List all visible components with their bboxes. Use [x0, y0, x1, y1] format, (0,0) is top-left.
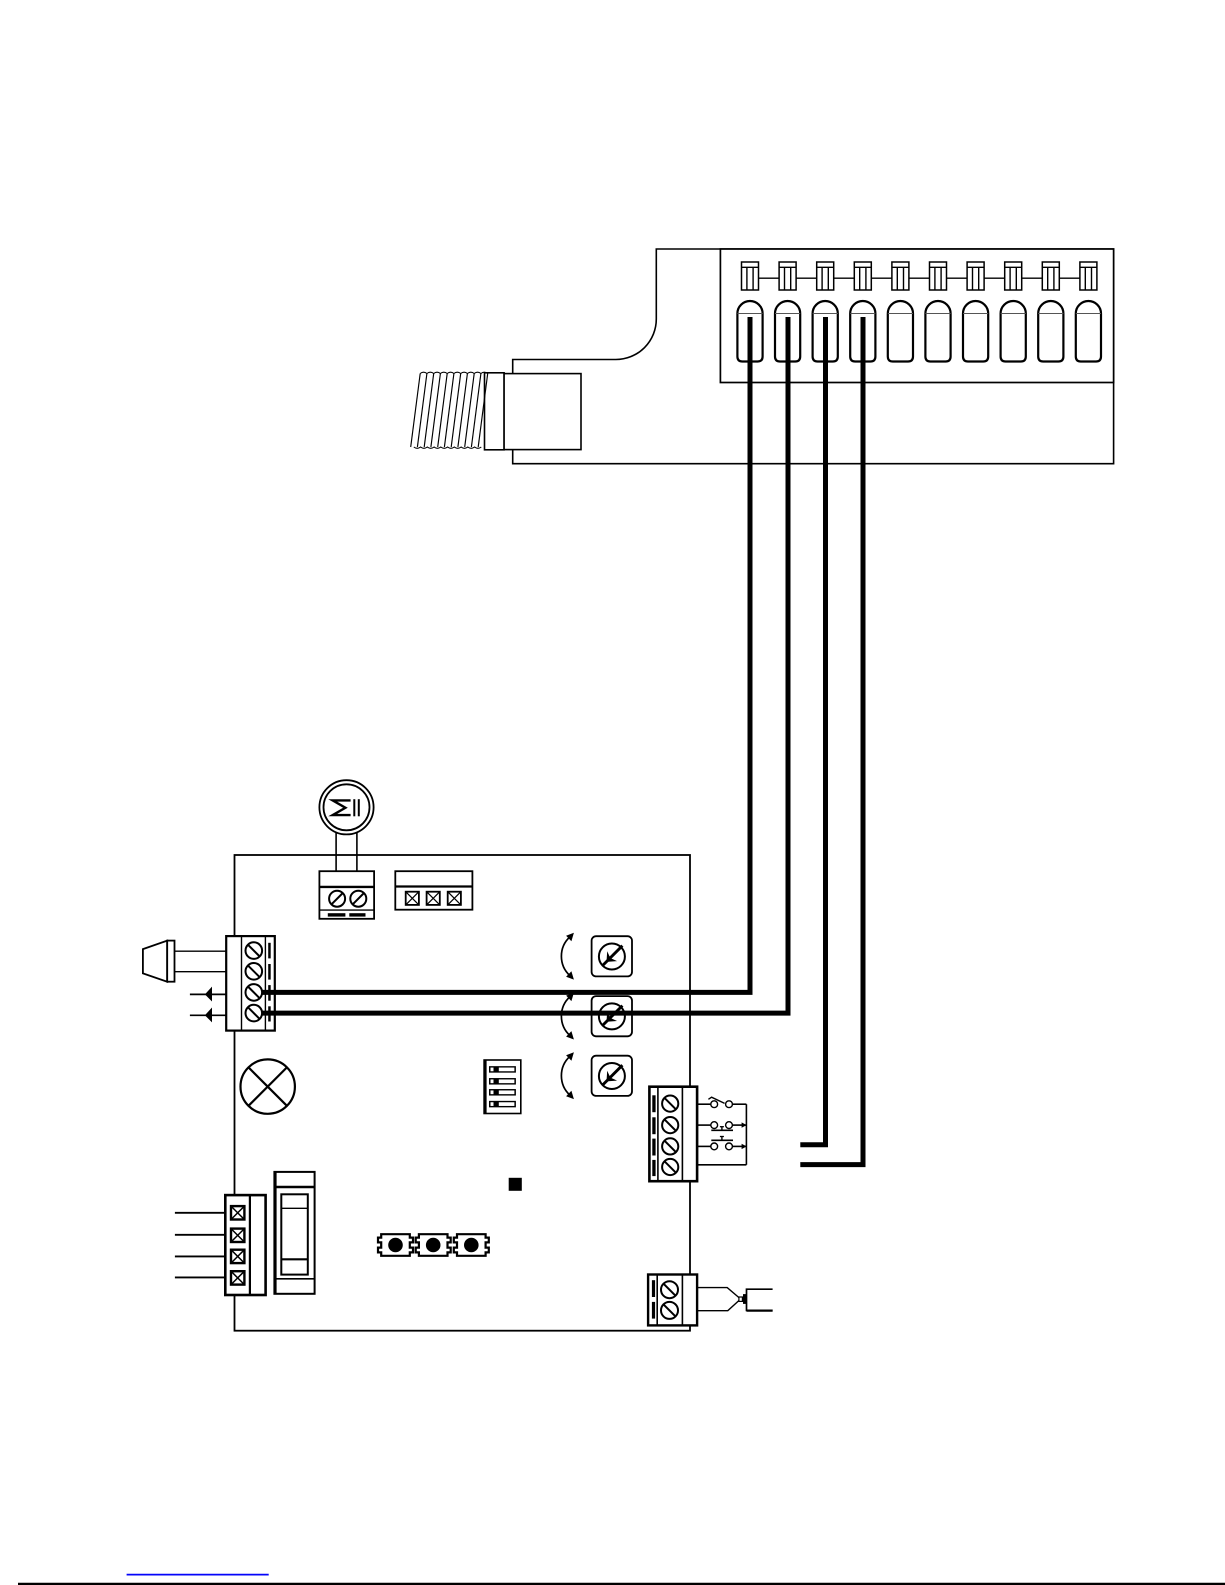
screw terminal T1 [742, 262, 759, 290]
motor M1 [319, 780, 373, 834]
bell wire plug [747, 1289, 773, 1310]
wire clamp C9 [1038, 301, 1063, 362]
potentiometer R3 (force) [592, 1056, 632, 1096]
bus junction arrow row 3 [742, 1144, 747, 1149]
wire clamp C6 [925, 301, 950, 361]
screw terminal T6 [930, 262, 947, 290]
antenna wire nut [143, 941, 175, 982]
pushbutton SW3 row 3 [697, 1136, 746, 1149]
wire clamp C10 [1076, 301, 1101, 362]
wire 3 (receiver T3) [800, 317, 825, 1145]
link wire between T8 and T9 [1022, 277, 1043, 279]
wire clamp C7 [963, 301, 988, 362]
power lead wire 1 [175, 1212, 225, 1214]
adjustment arrow for potentiometer R2 [561, 993, 574, 1040]
antenna coax connector box [485, 373, 582, 450]
antenna threaded fitting [411, 372, 488, 448]
power lead wire 4 [175, 1276, 225, 1278]
right terminal block J4 [649, 1087, 697, 1182]
footer hyperlink rule [127, 1574, 269, 1576]
wall control wire pair [697, 1288, 739, 1311]
screw terminal T9 [1042, 262, 1059, 290]
link wire between T6 and T7 [947, 277, 968, 279]
screw terminal T10 [1080, 262, 1097, 290]
left terminal block J3 [226, 936, 275, 1031]
pushbutton PB1 [378, 1234, 413, 1256]
splice connector [739, 1294, 747, 1304]
accessory connector J2 with crossed squares [395, 871, 472, 910]
screw terminal T2 [779, 262, 796, 290]
switch bus wire [697, 1104, 746, 1165]
potentiometer R2 (down travel) [592, 996, 632, 1036]
power connector J6 [225, 1195, 265, 1295]
switch SW1 (NC) row 1 [697, 1097, 746, 1107]
link wire between T4 and T5 [871, 277, 892, 279]
wire clamp C5 [888, 301, 913, 362]
pushbutton PB2 [416, 1234, 451, 1256]
pushbutton SW2 row 2 [697, 1122, 746, 1131]
link wire between T3 and T4 [834, 277, 855, 279]
potentiometer R1 (up travel) [592, 936, 632, 976]
adjustment arrow for potentiometer R1 [561, 933, 574, 980]
bus junction arrow row 2 [742, 1122, 747, 1127]
screw terminal T5 [892, 262, 909, 290]
motor M1 leads [336, 833, 357, 872]
control board outline [235, 855, 691, 1331]
wire clamp C8 [1001, 301, 1026, 362]
terminal strip box [720, 249, 1113, 383]
power lead wire 3 [175, 1255, 225, 1257]
screw terminal T4 [854, 262, 871, 290]
LED D1 [509, 1178, 522, 1191]
sensor arrow wire 2 [190, 1008, 226, 1023]
screw terminal T7 [967, 262, 984, 290]
adjustment arrow for potentiometer R3 [561, 1052, 574, 1099]
screw terminal T8 [1005, 262, 1022, 290]
wire 1 (receiver T1 to left block screw 3) [262, 317, 751, 992]
pushbutton PB3 [454, 1234, 489, 1256]
footer rule [18, 1583, 1225, 1585]
link wire between T1 and T2 [759, 277, 780, 279]
receiver enclosure outline [513, 249, 1114, 464]
link wire between T9 and T10 [1059, 277, 1080, 279]
screw terminal T3 [817, 262, 834, 290]
link wire between T5 and T6 [909, 277, 930, 279]
motor terminal block J1 [319, 871, 374, 919]
wall control terminal block J5 [648, 1275, 697, 1326]
DIP switch S1 [484, 1060, 521, 1114]
wire clamp C1 [737, 301, 762, 361]
wire nut lead 2 [175, 971, 227, 973]
wire 4 (receiver T4) [800, 317, 863, 1165]
wire 2 (receiver T2 to left block screw 4) [262, 317, 789, 1013]
lamp L1 [241, 1059, 295, 1113]
link wire between T2 and T3 [796, 277, 817, 279]
link wire between T7 and T8 [984, 277, 1005, 279]
fuse holder F1 [274, 1172, 314, 1294]
wire clamp C3 [813, 301, 838, 362]
wire clamp C4 [850, 301, 875, 362]
sensor arrow wire 1 [190, 987, 226, 1002]
wire clamp C2 [775, 301, 800, 362]
wire nut lead 1 [175, 950, 227, 952]
power lead wire 2 [175, 1234, 225, 1236]
